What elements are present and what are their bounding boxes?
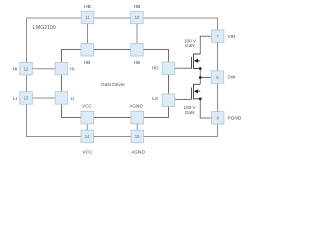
wire port LO to Q2 gate: [175, 99, 192, 101]
port AGND on GaN Driver: [131, 111, 144, 124]
transistor Q2 100 V GaN (low side): [192, 84, 201, 100]
pin label LI: [13, 96, 17, 102]
wire Q2 source to pin PGND: [200, 99, 211, 118]
wire Q1 source to Q2 drain (SW rail): [199, 69, 201, 85]
value label 100 V GaN (Q1): [184, 38, 197, 48]
pin label PGND: [228, 115, 242, 121]
wire pin10 to port HB2: [136, 24, 138, 44]
svg-text:AGND: AGND: [129, 104, 143, 109]
wire SW node to pin SW: [200, 77, 211, 79]
svg-text:GaN: GaN: [185, 110, 194, 115]
pin label HB (pin 10): [134, 4, 141, 10]
port label HI: [70, 66, 75, 71]
pin label VCC: [82, 150, 93, 156]
pin 11 HB: [81, 11, 94, 24]
pin label VIN: [228, 34, 237, 40]
IC outline U1 LMG2100: [27, 18, 218, 137]
svg-text:AGND: AGND: [131, 150, 145, 156]
svg-text:HB: HB: [134, 60, 140, 65]
svg-text:GaN: GaN: [185, 43, 194, 48]
svg-text:HI: HI: [70, 66, 75, 71]
port label HB2: [134, 60, 140, 65]
port HO on GaN Driver: [162, 62, 175, 75]
wire pin14 to port VCC: [86, 124, 88, 130]
port label VCC: [82, 103, 92, 108]
pin label HB (pin 11): [84, 4, 91, 10]
value label 100 V GaN (Q2): [184, 105, 197, 115]
transistor Q1 100 V GaN (high side): [192, 54, 201, 70]
svg-text:HB: HB: [134, 4, 141, 10]
pin label SW: [228, 75, 236, 81]
wire pin13 to port LI: [33, 97, 56, 99]
svg-text:HO: HO: [152, 66, 159, 71]
svg-text:13: 13: [24, 96, 29, 101]
svg-text:LI: LI: [13, 96, 17, 102]
svg-text:VCC: VCC: [82, 103, 92, 108]
wire Q1 drain to pin VIN: [200, 36, 211, 54]
label LMG2100: [33, 25, 56, 31]
junction dot SW node: [199, 76, 202, 79]
pin 10 HB: [131, 11, 144, 24]
pin 15 AGND: [131, 130, 144, 143]
pin 5 SW: [211, 71, 224, 84]
svg-text:15: 15: [135, 134, 140, 139]
svg-text:LO: LO: [152, 96, 159, 101]
junction dot Q2 source: [199, 97, 202, 100]
port LO on GaN Driver: [162, 94, 175, 107]
svg-text:LMG2100: LMG2100: [33, 25, 56, 31]
pin 13 LI: [20, 92, 33, 105]
wire pin15 to port AGND: [136, 124, 138, 130]
svg-text:SW: SW: [228, 75, 236, 81]
pin 7 VIN: [211, 30, 224, 43]
port HB2 on GaN Driver: [131, 44, 144, 57]
pin 8 PGND: [211, 112, 224, 125]
GaN Driver block: [62, 50, 169, 118]
wire port HO to Q1 gate: [175, 67, 192, 69]
port label HB1: [84, 60, 90, 65]
svg-text:11: 11: [85, 15, 90, 20]
svg-text:12: 12: [24, 66, 29, 71]
svg-text:HB: HB: [84, 60, 90, 65]
pin 14 VCC: [81, 130, 94, 143]
port label LO: [152, 96, 159, 101]
svg-text:LI: LI: [71, 96, 75, 101]
pin label HI: [13, 67, 18, 73]
svg-text:HI: HI: [13, 67, 18, 73]
pin label AGND: [131, 150, 145, 156]
port label AGND: [129, 104, 143, 109]
svg-text:PGND: PGND: [228, 115, 242, 121]
port HB1 on GaN Driver: [81, 44, 94, 57]
junction dot Q1 source: [199, 67, 202, 70]
svg-text:GaN Driver: GaN Driver: [101, 82, 125, 88]
port label HO: [152, 66, 159, 71]
svg-text:VCC: VCC: [82, 150, 93, 156]
svg-text:VIN: VIN: [228, 34, 237, 40]
wire pin12 to port HI: [33, 68, 56, 70]
pin 12 HI: [20, 62, 33, 75]
port label LI: [71, 96, 75, 101]
port LI on GaN Driver: [55, 92, 67, 105]
wire pin11 to port HB1: [87, 24, 89, 44]
port VCC on GaN Driver: [81, 111, 94, 124]
svg-text:10: 10: [135, 15, 140, 20]
port HI on GaN Driver: [55, 62, 67, 75]
svg-text:14: 14: [85, 134, 90, 139]
svg-text:HB: HB: [84, 4, 91, 10]
